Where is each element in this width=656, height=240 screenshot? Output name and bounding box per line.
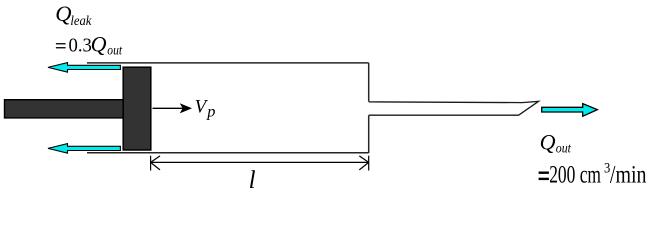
svg-text:Q: Q <box>55 1 71 26</box>
svg-text:/min: /min <box>610 162 647 189</box>
svg-text:200 cm: 200 cm <box>549 162 601 189</box>
svg-text:Q: Q <box>540 129 556 154</box>
svg-text:0.3: 0.3 <box>69 35 92 57</box>
svg-text:leak: leak <box>70 14 92 29</box>
svg-text:out: out <box>556 141 572 156</box>
svg-text:Q: Q <box>91 31 107 56</box>
svg-text:l: l <box>249 167 256 194</box>
svg-text:p: p <box>206 102 215 121</box>
svg-text:out: out <box>107 43 123 58</box>
